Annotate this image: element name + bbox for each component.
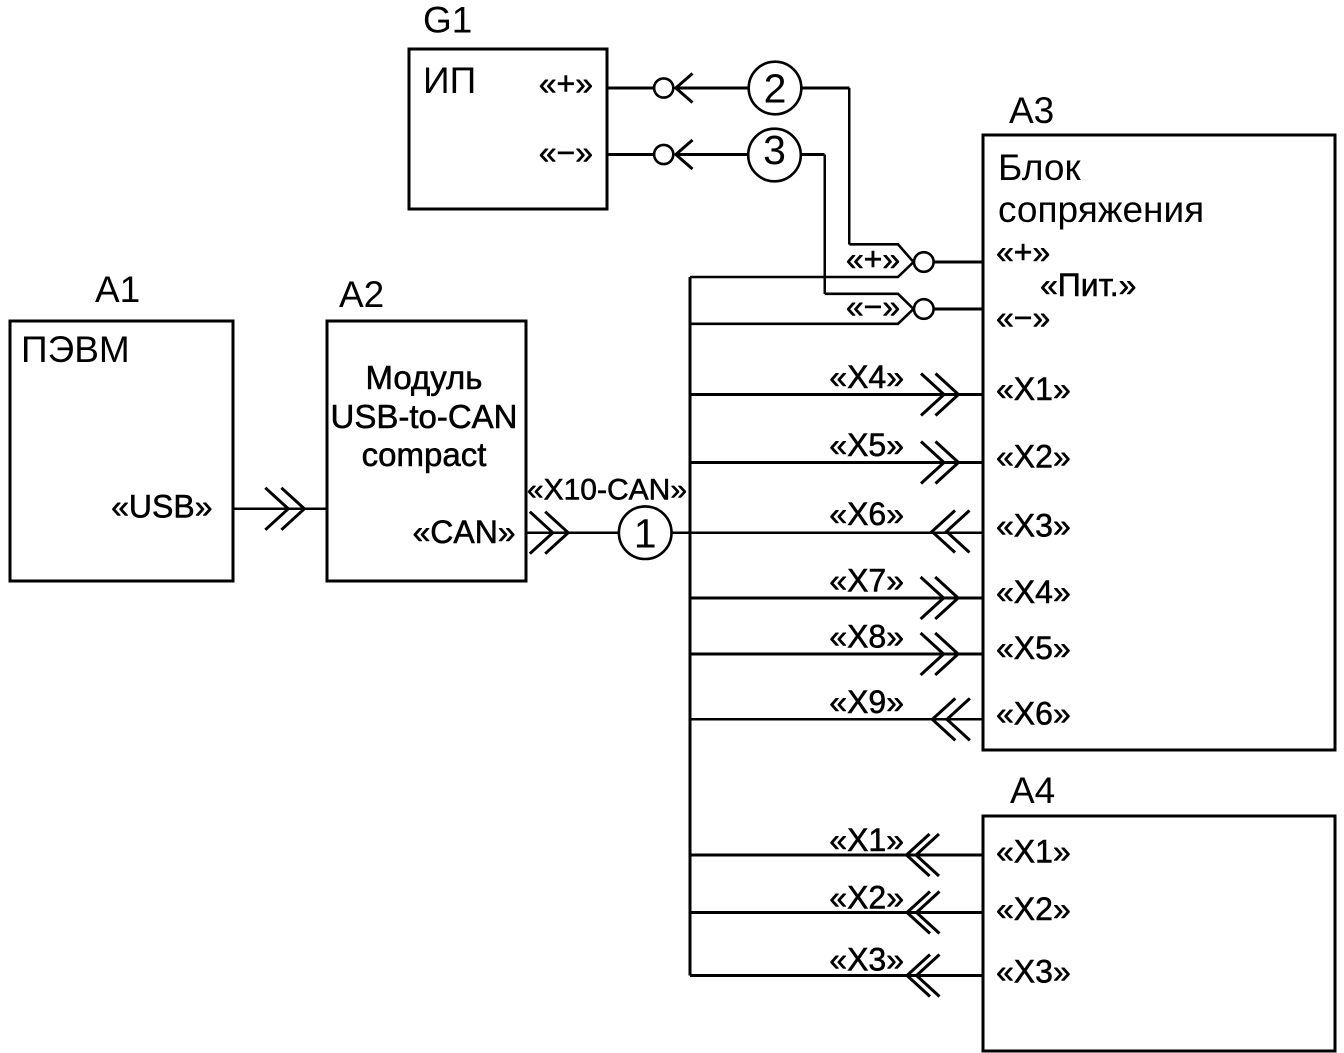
svg-text:ИП: ИП — [423, 60, 476, 101]
svg-text:«X4»: «X4» — [829, 359, 904, 395]
svg-text:«X6»: «X6» — [996, 696, 1071, 732]
svg-text:«X6»: «X6» — [829, 496, 904, 532]
svg-text:«X9»: «X9» — [829, 684, 904, 720]
svg-text:Блок: Блок — [998, 147, 1081, 188]
svg-text:«X5»: «X5» — [829, 427, 904, 463]
svg-text:«X7»: «X7» — [829, 563, 904, 599]
svg-text:«X10-CAN»: «X10-CAN» — [527, 474, 687, 507]
svg-text:«+»: «+» — [996, 234, 1050, 270]
svg-text:«X2»: «X2» — [829, 880, 904, 916]
svg-text:USB-to-CAN: USB-to-CAN — [330, 398, 517, 435]
svg-text:«+»: «+» — [846, 241, 900, 277]
svg-text:2: 2 — [764, 66, 787, 112]
svg-text:«X1»: «X1» — [996, 371, 1071, 407]
svg-text:«X8»: «X8» — [829, 619, 904, 655]
svg-text:«X3»: «X3» — [996, 954, 1071, 990]
svg-text:«X1»: «X1» — [829, 822, 904, 858]
svg-text:сопряжения: сопряжения — [998, 189, 1204, 230]
svg-text:«−»: «−» — [996, 300, 1050, 336]
svg-text:«Пит.»: «Пит.» — [1040, 267, 1136, 303]
svg-text:«−»: «−» — [539, 135, 593, 171]
svg-text:«X2»: «X2» — [996, 891, 1071, 927]
svg-text:«X4»: «X4» — [996, 574, 1071, 610]
svg-text:1: 1 — [634, 511, 657, 557]
svg-text:ПЭВМ: ПЭВМ — [21, 329, 130, 370]
svg-text:3: 3 — [763, 127, 786, 173]
svg-text:«X5»: «X5» — [996, 630, 1071, 666]
svg-text:«+»: «+» — [539, 66, 593, 102]
svg-text:«−»: «−» — [846, 289, 900, 325]
svg-text:A3: A3 — [1009, 90, 1054, 131]
svg-text:A1: A1 — [95, 269, 140, 310]
svg-text:A2: A2 — [339, 274, 384, 315]
svg-text:«X3»: «X3» — [829, 942, 904, 978]
svg-text:«X1»: «X1» — [996, 834, 1071, 870]
svg-text:compact: compact — [362, 436, 487, 473]
svg-text:«CAN»: «CAN» — [412, 514, 515, 550]
svg-text:«X3»: «X3» — [996, 508, 1071, 544]
svg-text:«X2»: «X2» — [996, 439, 1071, 475]
svg-text:Модуль: Модуль — [366, 359, 483, 396]
svg-text:A4: A4 — [1010, 770, 1055, 811]
svg-text:G1: G1 — [423, 0, 472, 41]
svg-text:«USB»: «USB» — [111, 489, 212, 525]
